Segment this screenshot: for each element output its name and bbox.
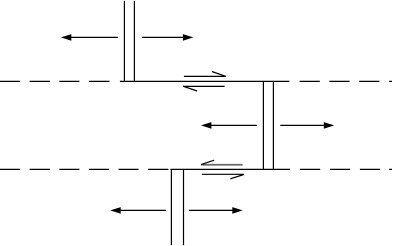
spreading arrow mid-right (points right) shaft [280,124,327,126]
ridge segment R3 right line [183,169,185,245]
shear half-arrow below transform fault 2 barb [230,175,244,179]
spreading arrow top-left (points left) shaft [68,36,118,38]
arrowhead of bottom-right spreading arrow [232,207,242,214]
ridge segment R1 left line (top spreading ridge) [123,1,125,82]
ridge segment R2 left line (middle spreading ridge) [262,81,264,170]
ridge segment R2 right line [272,81,274,170]
shear half-arrow above transform fault 1 (points right) shaft [184,75,226,77]
plate boundary line 1: left dashed section [0,80,110,82]
transform fault 2: solid section [170,168,290,170]
ridge segment R1 right line [133,1,135,82]
arrowhead of mid-left spreading arrow [201,122,211,129]
plate boundary line 1: right dashed section [300,80,392,82]
shear half-arrow below transform fault 2 (points right) shaft [202,173,244,175]
arrowhead of bottom-left spreading arrow [110,207,120,214]
spreading arrow mid-left (points left) shaft [208,124,257,126]
spreading arrow top-right (points right) shaft [142,36,186,38]
shear half-arrow above transform fault 1 barb [212,72,226,77]
shear half-arrow above transform fault 2 barb [201,160,214,164]
ridge segment R3 left line (bottom spreading ridge) [170,169,172,245]
spreading arrow bottom-left (points left) shaft [117,209,166,211]
arrowhead of mid-right spreading arrow [324,122,334,129]
plate boundary line 2: right dashed section [300,168,392,170]
transform fault 1: solid section [120,80,290,82]
shear half-arrow below transform fault 1 (points left) shaft [183,85,225,87]
arrowhead of top-left spreading arrow [61,34,71,41]
spreading arrow bottom-right (points right) shaft [189,209,235,211]
plate boundary line 2: left dashed section [0,168,168,170]
arrowhead of top-right spreading arrow [183,34,193,41]
shear half-arrow below transform fault 1 barb [183,86,197,91]
shear half-arrow above transform fault 2 (points left) shaft [201,164,243,166]
